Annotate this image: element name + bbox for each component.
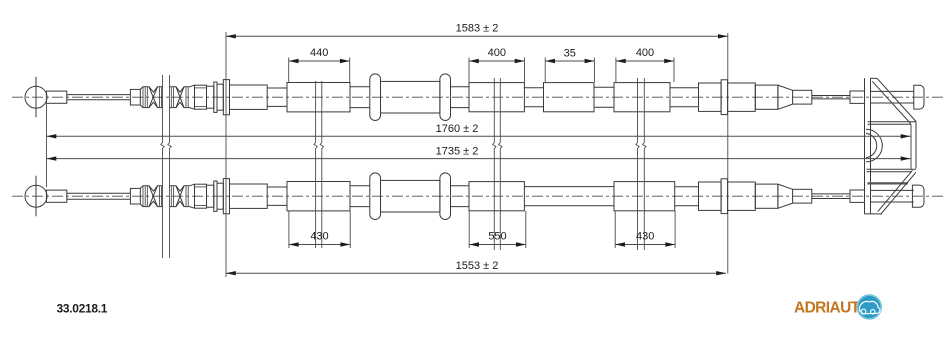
svg-text:430: 430 — [636, 231, 654, 243]
svg-text:ADRIAUT: ADRIAUT — [794, 300, 861, 317]
svg-text:1760 ± 2: 1760 ± 2 — [436, 123, 479, 135]
svg-text:1553 ± 2: 1553 ± 2 — [456, 260, 499, 272]
svg-text:1735 ± 2: 1735 ± 2 — [436, 145, 479, 157]
svg-text:550: 550 — [488, 231, 506, 243]
svg-text:430: 430 — [310, 231, 328, 243]
svg-text:33.0218.1: 33.0218.1 — [57, 302, 108, 316]
svg-text:400: 400 — [636, 47, 654, 59]
svg-text:440: 440 — [310, 47, 328, 59]
svg-text:400: 400 — [488, 47, 506, 59]
svg-text:35: 35 — [564, 48, 576, 60]
svg-text:1583 ± 2: 1583 ± 2 — [456, 23, 499, 35]
